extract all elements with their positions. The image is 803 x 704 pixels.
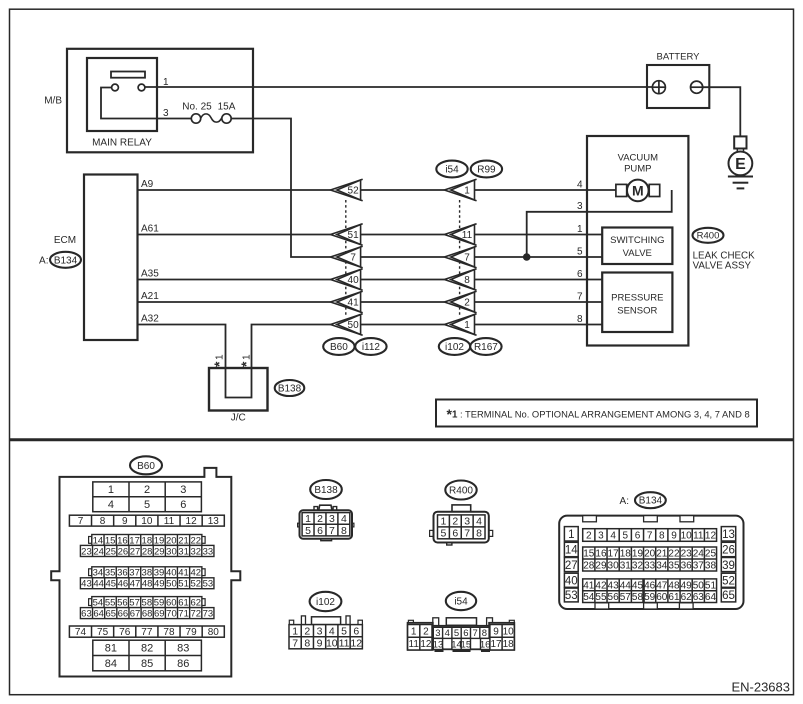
svg-text:37: 37 [129,568,140,579]
svg-text:20: 20 [644,549,656,560]
svg-text:39: 39 [154,568,165,579]
svg-text:24: 24 [93,546,104,557]
svg-text:45: 45 [105,579,116,590]
svg-text:78: 78 [163,627,175,638]
connector pin 11 (i102/R167) [444,224,476,245]
svg-text:BATTERY: BATTERY [657,52,701,63]
svg-text:5: 5 [144,499,150,511]
svg-text:4: 4 [445,628,450,639]
svg-text:35: 35 [668,561,680,572]
svg-text:43: 43 [608,580,620,591]
wire A9 to connector 52 [138,189,331,191]
connector pin 2 (i102/R167) [444,291,476,312]
svg-text:2: 2 [452,516,458,528]
svg-text:6: 6 [452,528,458,540]
ground symbol [728,177,753,189]
svg-text:B138: B138 [314,485,338,496]
B134 heavy divider between 45/46 [642,579,645,603]
svg-text:25: 25 [705,549,717,560]
svg-text:36: 36 [117,568,128,579]
svg-text:VALVE: VALVE [623,248,652,259]
vacuum pump motor M [616,180,660,202]
svg-text:i54: i54 [445,165,459,176]
svg-text:1: 1 [441,516,447,528]
svg-text:58: 58 [142,597,153,608]
svg-text:79: 79 [186,627,198,638]
svg-text:41: 41 [178,568,189,579]
ground point E [729,152,753,176]
svg-text:11: 11 [164,516,175,527]
svg-text:60: 60 [656,592,668,603]
svg-text:43: 43 [81,579,92,590]
svg-text:30: 30 [166,546,177,557]
svg-text:2: 2 [317,513,323,525]
connector diagram oval i102 [310,592,342,611]
connector oval i112 [355,338,386,355]
svg-text:B134: B134 [639,496,663,507]
svg-text:4: 4 [329,625,335,637]
svg-text:1: 1 [242,354,253,360]
wire fuse to connector row 7 [231,119,330,258]
svg-text:1: 1 [292,625,298,637]
svg-text:B138: B138 [278,384,302,395]
svg-text:41: 41 [348,298,360,309]
connector pin 1 (i102/R167) [444,314,476,335]
svg-text:30: 30 [608,561,620,572]
svg-text:51: 51 [178,579,189,590]
svg-text:81: 81 [105,643,117,655]
connector oval B60 [323,338,354,355]
svg-text:17: 17 [490,639,502,650]
B60 cells 54-62 [92,597,202,609]
svg-text:14: 14 [565,545,578,557]
wire row 7 to pressure sensor [475,301,603,303]
svg-text:76: 76 [119,627,131,638]
svg-text:A21: A21 [141,291,159,302]
svg-text:7: 7 [473,628,478,639]
connector diagram oval B138 [310,480,342,499]
svg-text:83: 83 [177,643,189,655]
svg-text:2: 2 [586,531,592,542]
connector pin 7 (i102/R167) [444,246,476,267]
svg-text:6: 6 [635,531,641,542]
svg-text:37: 37 [693,561,705,572]
svg-text:A35: A35 [141,269,159,280]
svg-text:68: 68 [142,608,153,619]
svg-text:18: 18 [620,549,632,560]
svg-text:i112: i112 [362,342,381,353]
svg-text:7: 7 [464,528,470,540]
svg-text:8: 8 [476,528,482,540]
svg-text:3: 3 [163,108,169,119]
connector B138 housing [298,505,354,541]
B134 corner cells 13,26,39,52,65 [721,527,735,541]
battery box [647,65,709,108]
svg-text:3: 3 [598,531,604,542]
svg-text:11: 11 [693,531,704,542]
svg-text:47: 47 [130,579,141,590]
svg-text:3: 3 [464,516,470,528]
connector pin 51 (B60/i112) [331,224,363,245]
svg-text:7: 7 [329,525,335,537]
relay contact circle right [138,84,145,91]
wire A32 to joint connector [138,325,226,369]
wire relay pin1 to battery [145,86,652,88]
svg-text:1: 1 [464,186,470,197]
svg-text:58: 58 [632,592,644,603]
R400 cells 1-8 [438,515,486,540]
svg-text:PRESSURE: PRESSURE [611,293,663,304]
svg-text:11: 11 [339,637,350,649]
svg-text:23: 23 [681,549,693,560]
svg-text:65: 65 [105,608,116,619]
svg-text:i54: i54 [454,597,468,608]
connector diagram oval B60 [130,456,162,474]
svg-text:40: 40 [565,575,578,587]
i54 cell 13 [433,638,444,650]
relay contact circle left [112,84,119,91]
wire A35 to connector 40 [138,279,331,281]
i54 cell 16 [480,638,491,650]
svg-text:59: 59 [644,592,656,603]
wire A61 to connector 51 [138,234,331,236]
svg-text:18: 18 [142,535,153,546]
B134 cells 41-64 [583,579,717,603]
svg-text:VALVE ASSY: VALVE ASSY [693,261,752,272]
B134 housing tabs [583,516,694,609]
ground stem left [736,149,738,153]
svg-text:39: 39 [722,560,735,572]
svg-text:82: 82 [141,643,153,655]
B134 cells 15-38 [583,547,717,572]
svg-text:67: 67 [130,608,141,619]
svg-text:PUMP: PUMP [624,164,651,175]
svg-text:A:: A: [39,255,48,266]
ground stem right [743,149,745,153]
connector oval B134 (ECM) [50,252,81,268]
svg-text:5: 5 [454,628,459,639]
svg-text:17: 17 [129,535,140,546]
svg-text:12: 12 [705,531,717,542]
svg-text:6: 6 [463,628,468,639]
svg-text:65: 65 [722,590,735,602]
wire relay contact to fuse (pin 3) [101,88,191,119]
connector diagram oval B134 [635,492,666,508]
svg-text:1: 1 [215,354,226,360]
svg-text:6: 6 [317,525,323,537]
svg-text:4: 4 [341,513,347,525]
svg-text:62: 62 [681,592,693,603]
svg-text:6: 6 [180,499,186,511]
wire row 7 between connectors [361,301,445,303]
label *1 left (rotated) [211,354,227,367]
battery positive terminal [652,81,665,94]
svg-text:50: 50 [693,580,705,591]
svg-text:52: 52 [190,579,201,590]
svg-text:10: 10 [141,516,153,527]
wire row 1 between connectors [361,234,445,236]
connector R400 housing [430,505,493,545]
svg-text:55: 55 [105,597,116,608]
connector i54 housing [408,623,515,650]
svg-text:9: 9 [671,531,677,542]
svg-text:B60: B60 [330,342,348,353]
junction dot [523,253,531,261]
svg-text:4: 4 [476,516,482,528]
svg-text:41: 41 [583,580,595,591]
B60 cells 34-42 end tabs [89,569,92,576]
svg-text:64: 64 [705,592,717,603]
svg-text:*: * [238,361,254,367]
svg-text:44: 44 [620,580,632,591]
svg-text:51: 51 [705,580,717,591]
B60 cells 34-42 [92,567,202,579]
svg-text:2: 2 [423,626,429,637]
connector pin 41 (B60/i112) [331,291,363,312]
svg-text:5: 5 [305,525,311,537]
svg-text:3: 3 [180,484,186,496]
svg-text:5: 5 [441,528,447,540]
svg-text:6: 6 [353,625,359,637]
svg-text:57: 57 [129,597,140,608]
svg-text:12: 12 [186,516,198,527]
svg-text:69: 69 [154,608,165,619]
wire A21 to connector 41 [138,301,331,303]
connector i102 housing tabs [289,616,362,625]
svg-text:54: 54 [583,592,595,603]
svg-text:10: 10 [503,626,515,637]
svg-text:56: 56 [117,597,128,608]
svg-text:66: 66 [118,608,129,619]
B60 cells 23-33 [80,545,214,557]
svg-text:50: 50 [348,320,360,331]
connector oval R167 [470,338,501,355]
svg-text:B60: B60 [137,461,155,472]
svg-text:2: 2 [144,484,150,496]
B60 cells 14-22 end tabs [89,537,92,544]
svg-text:R400: R400 [449,486,473,497]
svg-text:26: 26 [118,546,129,557]
wire row 6 between connectors [361,279,445,281]
svg-text:9: 9 [122,516,128,527]
connector pin 52 (B60/i112) [331,179,363,200]
svg-text:10: 10 [681,531,693,542]
joint connector J/C box [209,368,268,411]
svg-text:7: 7 [464,253,470,264]
svg-text:53: 53 [565,590,578,602]
svg-text:6: 6 [577,269,583,280]
connector oval B138 [275,380,305,396]
svg-text:20: 20 [166,535,177,546]
B60 cells 63-73 [80,608,214,620]
i54 cells 1,2,11,12 [408,625,432,651]
svg-text:28: 28 [142,546,153,557]
svg-text:SENSOR: SENSOR [617,306,657,317]
svg-text:J/C: J/C [231,413,246,424]
svg-text:13: 13 [722,529,735,541]
B60 cells 81-86 [93,640,202,671]
i102 cells 1-12 [289,625,362,650]
connector pin 50 (B60/i112) [331,314,363,335]
svg-text:1: 1 [568,529,574,541]
svg-text:i102: i102 [316,597,335,608]
B134 cells 2-12 [583,529,717,542]
connector oval i54 [436,161,467,178]
connector pin 1 (i54/R99) [444,179,476,200]
svg-text:63: 63 [81,608,92,619]
connector oval R400 [693,228,724,243]
svg-text:49: 49 [154,579,165,590]
B138 cells 1-8 [302,513,350,537]
svg-text:46: 46 [644,580,656,591]
svg-text:14: 14 [93,535,104,546]
svg-text:28: 28 [583,561,595,572]
svg-text:22: 22 [668,549,680,560]
svg-text:3: 3 [577,201,583,212]
svg-text:13: 13 [208,516,220,527]
section divider line [10,438,793,441]
svg-text:46: 46 [118,579,129,590]
svg-text:15: 15 [583,549,595,560]
wire row 4 between connectors [361,189,445,191]
svg-text:2: 2 [304,625,310,637]
label *1 right (rotated) [238,354,254,367]
connector pin 8 (i102/R167) [444,269,476,290]
svg-text:12: 12 [420,639,432,650]
connector diagram oval R400 [445,481,476,500]
svg-text:8: 8 [341,525,347,537]
svg-text:1: 1 [108,484,114,496]
i54 cells 14,15 [451,638,471,650]
svg-text:48: 48 [668,580,680,591]
svg-text:25: 25 [105,546,116,557]
svg-text:MAIN RELAY: MAIN RELAY [92,138,152,149]
battery negative terminal [691,81,703,93]
connector diagram oval i54 [446,592,476,610]
svg-text:8: 8 [100,516,106,527]
svg-text:29: 29 [154,546,165,557]
svg-text:80: 80 [208,627,220,638]
svg-text:15: 15 [461,639,472,650]
svg-text:No. 25: No. 25 [182,101,212,112]
svg-text:32: 32 [632,561,644,572]
svg-text:40: 40 [348,275,360,286]
svg-text:85: 85 [141,658,153,670]
relay coil bar [111,72,145,78]
svg-text:8: 8 [659,531,665,542]
svg-text:62: 62 [190,597,201,608]
wire battery to ground E [703,87,741,136]
svg-text:2: 2 [464,298,470,309]
svg-text:44: 44 [93,579,104,590]
svg-text:B134: B134 [54,255,78,266]
B60 cells 1-6 [93,482,202,512]
svg-text:36: 36 [681,561,693,572]
svg-text:50: 50 [166,579,177,590]
svg-text:40: 40 [166,568,177,579]
connector B134 housing [559,516,743,609]
svg-text:33: 33 [644,561,656,572]
svg-text:33: 33 [203,546,214,557]
svg-text:42: 42 [190,568,201,579]
wire row 1 to switching valve [475,234,603,236]
svg-text:77: 77 [141,627,153,638]
i54 index tabs (black) [435,648,444,653]
svg-text:4: 4 [610,531,616,542]
svg-text:8: 8 [304,637,310,649]
svg-text:52: 52 [348,186,360,197]
svg-text:18: 18 [503,639,515,650]
svg-text:72: 72 [190,608,201,619]
ECM box [84,175,138,341]
B60 cells 43-53 [80,578,214,590]
svg-text:9: 9 [317,637,323,649]
svg-text:M: M [632,182,644,198]
B60 cells 14-22 [92,535,202,547]
svg-text:26: 26 [722,545,735,557]
svg-text:7: 7 [350,253,356,264]
svg-text:15: 15 [105,535,116,546]
svg-text:61: 61 [668,592,680,603]
svg-text:9: 9 [493,626,499,637]
svg-text:64: 64 [93,608,104,619]
svg-text:E: E [735,156,746,173]
svg-text:ECM: ECM [54,235,76,246]
wire row 6 to pressure sensor [475,279,603,281]
connector B60 housing [51,468,240,677]
wire row 4 to vacuum pump [475,189,616,191]
svg-text:17: 17 [608,549,620,560]
svg-text:16: 16 [117,535,128,546]
svg-text:15A: 15A [218,101,236,112]
svg-text:24: 24 [693,549,705,560]
svg-text:10: 10 [326,637,338,649]
svg-text:M/B: M/B [44,96,62,107]
svg-text:42: 42 [595,580,607,591]
svg-text:1: 1 [464,320,470,331]
svg-text:A32: A32 [141,314,159,325]
svg-text:8: 8 [464,275,470,286]
connector oval R99 [471,161,502,178]
svg-text:19: 19 [632,549,644,560]
B60 cells 54-62 end tabs [89,599,92,606]
svg-text:SWITCHING: SWITCHING [610,235,664,246]
svg-text:5: 5 [623,531,629,542]
svg-text:23: 23 [81,546,92,557]
svg-text:74: 74 [75,627,87,638]
connector i54 housing tabs [408,618,514,626]
svg-text:A61: A61 [141,224,159,235]
svg-text:5: 5 [341,625,347,637]
svg-text:34: 34 [93,568,104,579]
svg-text:71: 71 [178,608,189,619]
svg-text:A:: A: [620,496,629,507]
svg-text:51: 51 [348,230,360,241]
wire pin 3 motor return to row 5 [527,190,672,257]
fuse No. 25 15A [191,114,231,123]
svg-text:1: 1 [577,224,583,235]
svg-text:7: 7 [577,291,583,302]
svg-text:54: 54 [93,597,104,608]
svg-text:1: 1 [411,626,417,637]
B134 corner cells 1,14,27,40,53 [564,527,578,541]
dotted harness line column B60/i112 [345,200,347,316]
svg-text:1: 1 [305,513,311,525]
svg-text:21: 21 [656,549,668,560]
connector pin 40 (B60/i112) [331,269,363,290]
note box [436,400,757,427]
wire row 5 between connectors [361,256,445,258]
